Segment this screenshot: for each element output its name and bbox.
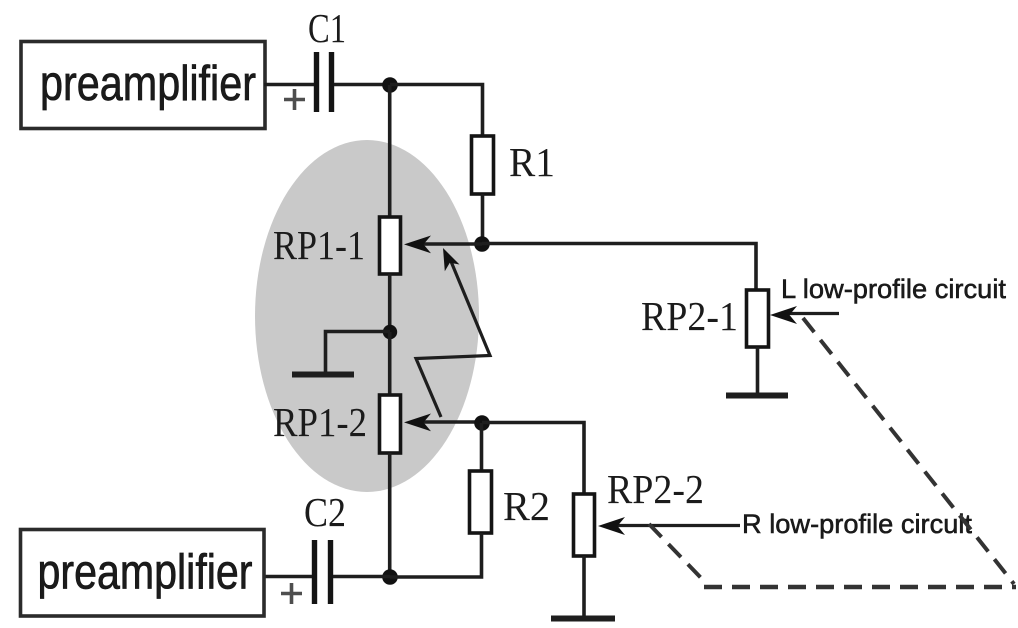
capacitor C1: [284, 5, 346, 112]
wire: RP2-1 wiper arrow with lead: [770, 306, 839, 324]
svg-text:C2: C2: [304, 489, 346, 535]
mechanical gang link RP1-1/RP1-2 (zigzag with arrow): [416, 248, 490, 417]
svg-text:preamplifier: preamplifier: [38, 546, 253, 600]
node C (center tap): [383, 325, 397, 339]
wire: RP1-1 bottom to node C: [388, 274, 392, 332]
svg-text:preamplifier: preamplifier: [40, 57, 256, 111]
wire: node A down to RP1-1 top: [388, 85, 392, 217]
wire: RP1-1 wiper arrow from node B: [404, 236, 482, 254]
wire: RP2-2 wiper arrow with lead to label: [598, 517, 740, 535]
wire: RP1-2 bottom to node D: [388, 453, 392, 577]
block: preamplifier (bottom): [21, 530, 265, 617]
node B (R1 / RP1-1 wiper / RP2-1 net): [474, 236, 490, 252]
svg-text:L low-profile circuit: L low-profile circuit: [781, 274, 1006, 304]
wire: RP1-2 wiper arrow from node E: [404, 414, 482, 432]
svg-text:R1: R1: [509, 139, 555, 185]
wire: node E down to R2 top: [480, 423, 484, 471]
svg-text:R low-profile circuit: R low-profile circuit: [742, 509, 972, 539]
svg-text:RP1-2: RP1-2: [273, 399, 367, 445]
wire: C1 to node A: [334, 83, 390, 87]
highlight ellipse around ganged RP1 section: [255, 140, 479, 492]
capacitor C2: [281, 489, 346, 604]
svg-text:RP2-1: RP2-1: [641, 293, 738, 339]
svg-text:RP1-1: RP1-1: [273, 222, 365, 268]
node D (bottom junction): [382, 569, 398, 585]
potentiometer RP1-2: [273, 395, 401, 453]
wire: R2 bottom to node D rail: [390, 533, 482, 577]
svg-text:R2: R2: [503, 483, 550, 529]
wire: node E to RP2-2 top: [482, 423, 584, 495]
potentiometer RP2-2: [574, 466, 705, 556]
wire: C2 to node D: [333, 575, 390, 579]
wire: top preamplifier output to C1: [264, 83, 315, 87]
dashed gang link RP2-1/RP2-2: [649, 318, 1016, 587]
ground (below RP2-2): [551, 556, 615, 619]
svg-text:C1: C1: [308, 5, 346, 51]
resistor R1: [472, 136, 556, 194]
block: preamplifier (top): [21, 42, 265, 129]
node A (top junction): [382, 77, 398, 93]
ground (below RP2-1): [726, 347, 788, 396]
svg-text:RP2-2: RP2-2: [607, 466, 704, 512]
wire: bottom preamplifier output to C2: [262, 575, 312, 579]
wire: R1 bottom to node B: [481, 194, 485, 243]
potentiometer RP1-1: [273, 217, 401, 274]
wire: node A right and down to R1 top: [390, 85, 483, 137]
ground (center tap): [292, 332, 390, 375]
wire: node B to RP2-1 top: [482, 244, 756, 291]
node E (R2 / RP1-2 wiper / RP2-2 net): [474, 415, 490, 431]
wire: node C to RP1-2 top: [388, 332, 392, 395]
resistor R2: [470, 471, 551, 533]
potentiometer RP2-1: [641, 290, 769, 347]
